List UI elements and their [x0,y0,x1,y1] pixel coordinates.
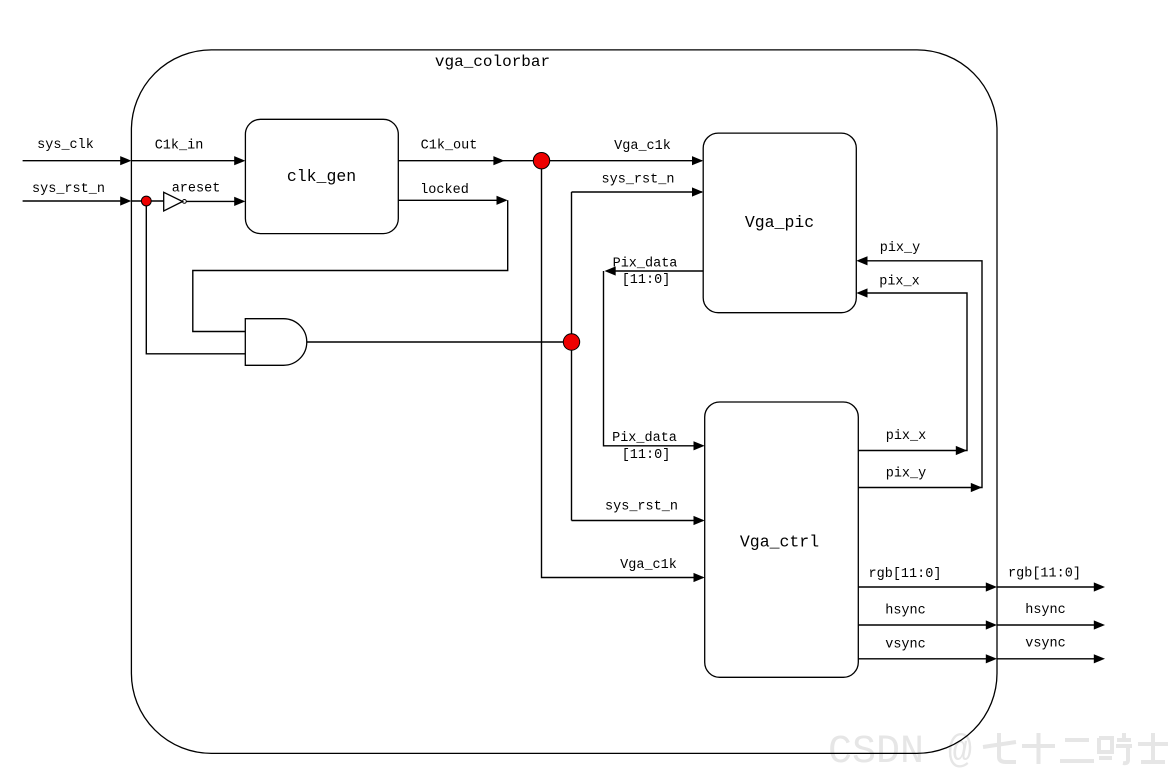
svg-text:C1k_out: C1k_out [421,139,478,154]
wire AND output [307,341,572,343]
wire pix_y loop [858,261,982,488]
svg-text:Pix_data: Pix_data [613,256,678,271]
wire C1k_in [131,160,236,162]
junction J3 [563,334,579,350]
wire sys_rst_n net vertical [571,192,573,521]
svg-text:vga_colorbar: vga_colorbar [435,53,550,71]
wire locked [398,199,498,201]
svg-text:pix_x: pix_x [879,274,920,289]
watermark CSDN [828,730,972,775]
wire C1k_out / Vga_c1k to Vga_pic [398,160,702,162]
wire areset [186,200,236,202]
wire Pix_data from Vga_pic [613,270,703,272]
wire hsync [858,624,988,626]
svg-text:areset: areset [172,182,221,197]
junction J2 [533,153,549,169]
wire sys_rst_n to Vga_ctrl [572,520,704,522]
svg-text:[11:0]: [11:0] [622,273,671,288]
士 [1138,733,1168,762]
AND gate U1 [245,319,306,366]
svg-text:Pix_data: Pix_data [612,431,677,446]
block Vga_pic [703,133,856,313]
二 [1060,740,1094,761]
svg-text:vsync: vsync [885,637,926,652]
wire areset to AND [146,201,245,354]
block clk_gen [245,119,398,233]
svg-text:clk_gen: clk_gen [287,167,356,186]
svg-text:Vga_c1k: Vga_c1k [614,139,671,154]
wire pix_x loop [858,293,967,451]
wire rgb[11:0] [858,586,988,588]
inverter buffer areset [164,192,183,211]
svg-text:rgb[11:0]: rgb[11:0] [869,567,942,582]
骑 [1099,733,1132,763]
十 [1022,733,1055,764]
module boundary vga_colorbar [131,50,997,754]
svg-text:pix_y: pix_y [886,466,927,481]
svg-text:[11:0]: [11:0] [622,448,671,463]
svg-text:C1k_in: C1k_in [155,138,204,153]
wire sys_rst_n to Vga_pic [572,191,703,193]
wire locked feedback [193,200,508,331]
wire to buffer [131,200,163,202]
block Vga_ctrl [705,402,859,677]
svg-text:rgb[11:0]: rgb[11:0] [1008,567,1081,582]
wire vsync [858,658,988,660]
svg-text:Vga_c1k: Vga_c1k [620,558,677,573]
svg-text:sys_rst_n: sys_rst_n [605,500,678,515]
svg-text:locked: locked [420,183,469,198]
svg-text:hsync: hsync [885,604,926,619]
七 [983,733,1016,762]
svg-text:sys_clk: sys_clk [37,138,94,153]
svg-text:CSDN @: CSDN @ [828,730,972,775]
wire Vga_c1k vertical to Vga_ctrl [542,161,704,578]
svg-text:Vga_ctrl: Vga_ctrl [740,533,819,552]
svg-text:pix_x: pix_x [886,429,927,444]
svg-text:hsync: hsync [1025,603,1066,618]
wire sys_rst_n [23,200,122,202]
wire sys_clk [23,160,122,162]
watermark CJK strokes 七十二骑士 [983,733,1168,764]
svg-text:Vga_pic: Vga_pic [745,213,814,232]
svg-text:vsync: vsync [1025,637,1066,652]
svg-text:pix_y: pix_y [880,241,921,256]
wire Pix_data vertical [604,271,696,446]
junction J1 [141,196,151,206]
svg-text:sys_rst_n: sys_rst_n [602,172,675,187]
svg-text:sys_rst_n: sys_rst_n [32,182,105,197]
